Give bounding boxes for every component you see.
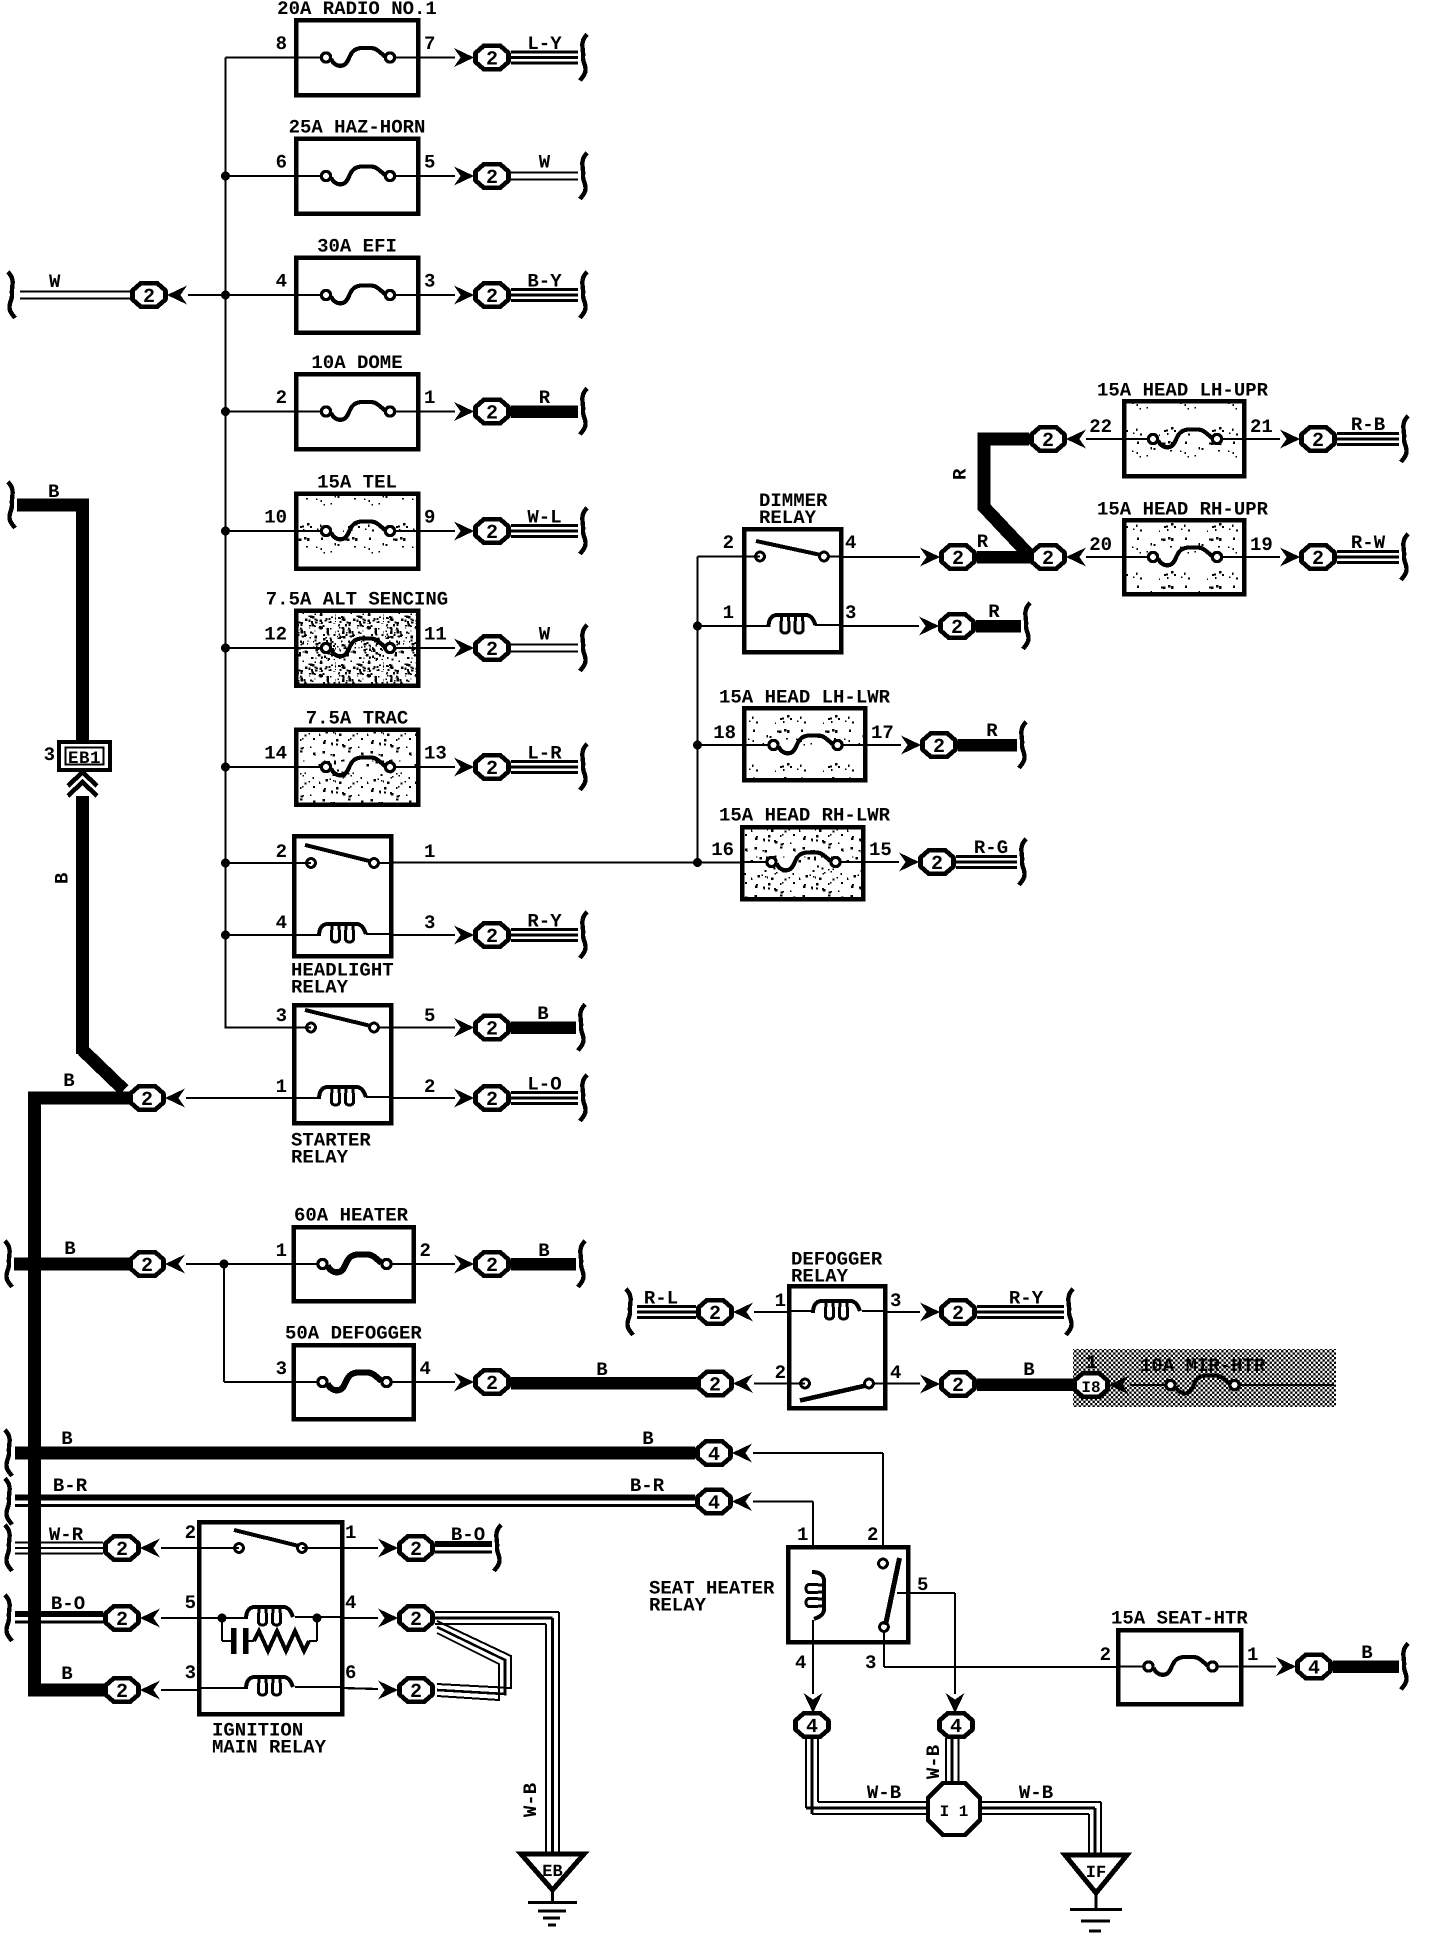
svg-text:3: 3 bbox=[44, 744, 55, 766]
pin 1 of ignition relay bbox=[345, 1522, 356, 1544]
wire R bbox=[511, 387, 587, 435]
wire B (left vertical bus) bbox=[28, 1092, 41, 1697]
connector 2 (B ignition) bbox=[106, 1678, 161, 1704]
switch contacts headlight relay bbox=[305, 845, 391, 867]
svg-text:MAIN RELAY: MAIN RELAY bbox=[212, 1737, 327, 1759]
svg-text:4: 4 bbox=[795, 1652, 806, 1674]
connector 2 (B into 60A) bbox=[131, 1252, 186, 1278]
svg-text:R-W: R-W bbox=[1351, 532, 1386, 554]
wire B (vertical, below EB1) bbox=[52, 796, 125, 1090]
wire B (seat continuation) bbox=[1333, 1642, 1408, 1690]
svg-text:R-L: R-L bbox=[644, 1288, 678, 1310]
junction bus/7.5A TRAC bbox=[221, 763, 230, 772]
fuse 7.5A ALT SENCING bbox=[266, 589, 448, 686]
wire ignition pin 4 to connector bbox=[342, 1617, 378, 1619]
wire B-R (long feed) bbox=[5, 1475, 695, 1525]
pin 1 of defogger relay bbox=[775, 1290, 786, 1312]
pin 2 of 10A DOME bbox=[276, 387, 287, 409]
pin 16 of RH-LWR bbox=[711, 839, 734, 861]
svg-text:4: 4 bbox=[950, 1716, 962, 1739]
wire starter relay pin 5 to connector bbox=[391, 1026, 455, 1028]
svg-text:15A HEAD LH-UPR: 15A HEAD LH-UPR bbox=[1097, 380, 1269, 402]
wire B long to seat heater relay pin 2 bbox=[753, 1453, 883, 1559]
svg-text:B: B bbox=[1361, 1642, 1372, 1664]
svg-text:2: 2 bbox=[931, 853, 943, 876]
wire B-Y bbox=[511, 271, 587, 319]
wire connector to RH-UPR pin 20 bbox=[1086, 556, 1124, 558]
svg-text:RELAY: RELAY bbox=[649, 1595, 707, 1617]
wire R (LH-LWR continuation) bbox=[958, 720, 1026, 768]
connector 2 (R dimmer coil) bbox=[919, 614, 974, 640]
junction bus/10A DOME bbox=[221, 407, 230, 416]
svg-text:B: B bbox=[1023, 1359, 1034, 1381]
coil starter relay bbox=[294, 1087, 391, 1105]
switch contacts defogger relay bbox=[800, 1379, 885, 1400]
wire R-B bbox=[1337, 414, 1408, 462]
wire bus to headlight relay pin 4 bbox=[221, 931, 294, 940]
connector I8 bbox=[1075, 1373, 1130, 1397]
connector 2 (L-Y) bbox=[454, 46, 509, 72]
pin 2 of 15A SEAT-HTR bbox=[1100, 1644, 1111, 1666]
pin 4 of headlight relay bbox=[276, 912, 287, 934]
wire R-W bbox=[1337, 532, 1408, 580]
pin 11 of 7.5A ALT SENCING bbox=[424, 624, 447, 646]
svg-text:2: 2 bbox=[486, 1255, 498, 1278]
svg-text:9: 9 bbox=[424, 507, 435, 529]
svg-text:1: 1 bbox=[276, 1076, 287, 1098]
svg-text:B: B bbox=[596, 1359, 607, 1381]
svg-text:3: 3 bbox=[424, 912, 435, 934]
svg-text:3: 3 bbox=[845, 602, 856, 624]
svg-text:18: 18 bbox=[713, 722, 736, 744]
wire head bus vertical bbox=[696, 557, 698, 863]
svg-text:2: 2 bbox=[486, 639, 498, 662]
pin 4 of seat heater relay bbox=[795, 1652, 806, 1674]
svg-text:2: 2 bbox=[141, 1255, 153, 1278]
pin 4 of dimmer relay bbox=[845, 532, 856, 554]
junction head bus / headlight pin1 wire bbox=[693, 858, 702, 867]
wire B-O bbox=[5, 1593, 103, 1641]
connector 2 (dimmer out R) bbox=[920, 545, 975, 571]
svg-text:B-R: B-R bbox=[630, 1475, 665, 1497]
coil ignition relay (main) bbox=[199, 1607, 342, 1625]
pin 21 of LH-UPR bbox=[1250, 416, 1273, 438]
wire head bus to LH-LWR pin 18 bbox=[693, 741, 744, 750]
svg-text:7.5A TRAC: 7.5A TRAC bbox=[306, 708, 409, 730]
wire defogger pin 2 to connector bbox=[754, 1382, 805, 1384]
wire headlight relay pin 1 to head fuse bus bbox=[391, 861, 742, 863]
connector 2 (L-R) bbox=[454, 755, 509, 781]
svg-text:B: B bbox=[52, 873, 74, 884]
wire B (long feed) bbox=[5, 1428, 695, 1476]
fuse 50A DEFOGGER bbox=[285, 1323, 422, 1420]
pin 1 of 10A MIR-HTR bbox=[1086, 1352, 1097, 1374]
pin 5 of seat heater relay bbox=[917, 1574, 928, 1596]
svg-text:R: R bbox=[986, 720, 998, 742]
pin 2 of 60A HEATER bbox=[420, 1240, 431, 1262]
wire bus to fuse 20A RADIO NO.1 bbox=[226, 56, 297, 58]
svg-text:2: 2 bbox=[410, 1539, 422, 1562]
svg-text:L-Y: L-Y bbox=[527, 33, 562, 55]
wire W-B bundle I1 to ground IF bbox=[980, 1782, 1101, 1855]
connector 4 (B long) bbox=[698, 1441, 753, 1467]
svg-text:2: 2 bbox=[276, 387, 287, 409]
svg-text:2: 2 bbox=[276, 841, 287, 863]
wire L-Y bbox=[511, 33, 587, 81]
svg-text:2: 2 bbox=[486, 1089, 498, 1112]
wire L-O bbox=[511, 1074, 587, 1122]
wire defogger pin 4 to connector bbox=[885, 1382, 920, 1384]
wire bus to fuse 10A DOME bbox=[226, 410, 297, 412]
pin 4 of 30A EFI bbox=[276, 271, 287, 293]
wire RH-UPR pin 19 to connector bbox=[1244, 556, 1280, 558]
wire B (heater continuation) bbox=[511, 1240, 585, 1287]
pin 14 of 7.5A TRAC bbox=[264, 743, 287, 765]
svg-text:2: 2 bbox=[116, 1609, 128, 1632]
svg-text:4: 4 bbox=[345, 1592, 356, 1614]
svg-text:2: 2 bbox=[185, 1522, 196, 1544]
relay box DIMMER RELAY bbox=[744, 490, 841, 652]
pin 3 of 30A EFI bbox=[424, 271, 435, 293]
svg-text:R: R bbox=[950, 468, 972, 480]
stipple band 10A MIR-HTR bbox=[1073, 1349, 1336, 1407]
junction bus/7.5A ALT SENCING bbox=[221, 644, 230, 653]
wire 50A DEFOGGER pin 4 to connector bbox=[414, 1381, 456, 1383]
wire connector to LH-UPR pin 22 bbox=[1086, 438, 1124, 440]
svg-text:3: 3 bbox=[276, 1005, 287, 1027]
svg-text:11: 11 bbox=[424, 624, 447, 646]
svg-text:3: 3 bbox=[276, 1358, 287, 1380]
svg-text:4: 4 bbox=[1308, 1658, 1320, 1681]
svg-text:15A HEAD LH-LWR: 15A HEAD LH-LWR bbox=[719, 687, 891, 709]
wire defogger pin 3 to connector bbox=[885, 1311, 920, 1313]
switch contacts dimmer relay bbox=[756, 541, 841, 561]
wire fuse 15A TEL to connector bbox=[418, 530, 455, 532]
svg-text:W-L: W-L bbox=[527, 507, 561, 529]
fuse 15A TEL bbox=[296, 472, 418, 569]
fuse 30A EFI bbox=[296, 236, 418, 333]
svg-text:W: W bbox=[539, 152, 551, 174]
svg-text:R: R bbox=[539, 387, 551, 409]
svg-text:2: 2 bbox=[952, 1375, 964, 1398]
connector 2 (B-O left) bbox=[106, 1606, 161, 1632]
wire W-R to ignition pin 2 bbox=[161, 1547, 239, 1549]
svg-text:4: 4 bbox=[276, 912, 287, 934]
pin 3 of headlight relay bbox=[424, 912, 435, 934]
wire bus to fuse 25A HAZ-HORN bbox=[226, 175, 297, 177]
pin 8 of 20A RADIO NO.1 bbox=[276, 33, 287, 55]
svg-text:2: 2 bbox=[116, 1539, 128, 1562]
connector 2 (W-B pin4) bbox=[378, 1606, 433, 1632]
svg-text:2: 2 bbox=[933, 736, 945, 759]
svg-text:R: R bbox=[977, 531, 989, 553]
svg-text:2: 2 bbox=[723, 532, 734, 554]
wire connector to 60A HEATER pin 1 bbox=[186, 1260, 294, 1269]
wire fuse 10A DOME to connector bbox=[418, 410, 455, 412]
wire B battery feed (top left) bbox=[8, 481, 89, 748]
wire R-Y bbox=[511, 911, 587, 959]
fuse 15A HEAD RH-LWR bbox=[719, 805, 891, 900]
wire B-R to seat heater relay pin 1 bbox=[753, 1502, 813, 1573]
pin 5 of 25A HAZ-HORN bbox=[424, 152, 435, 174]
svg-text:20: 20 bbox=[1089, 534, 1112, 556]
svg-text:B-O: B-O bbox=[51, 1593, 85, 1615]
svg-text:22: 22 bbox=[1089, 416, 1112, 438]
pin 2 of headlight relay bbox=[276, 841, 287, 863]
junction bus/15A TEL bbox=[221, 527, 230, 536]
pin 20 of RH-UPR bbox=[1089, 534, 1112, 556]
svg-text:L-O: L-O bbox=[527, 1074, 561, 1096]
fuse 10A DOME bbox=[296, 352, 418, 449]
fuse 25A HAZ-HORN bbox=[289, 117, 426, 214]
svg-text:W: W bbox=[49, 271, 61, 293]
svg-text:B-R: B-R bbox=[53, 1475, 88, 1497]
svg-text:6: 6 bbox=[345, 1662, 356, 1684]
svg-text:B: B bbox=[64, 1238, 75, 1260]
svg-text:I8: I8 bbox=[1081, 1379, 1100, 1397]
wire 60A HEATER pin 2 to connector bbox=[414, 1263, 456, 1265]
arrow down to connector 4 (pin 5) bbox=[940, 1693, 973, 1739]
pin 6 of 25A HAZ-HORN bbox=[276, 152, 287, 174]
wire W-B bundle seat pin4 to joint I1 bbox=[806, 1738, 928, 1814]
svg-text:B: B bbox=[538, 1240, 549, 1262]
pin 1 of 60A HEATER bbox=[276, 1240, 287, 1262]
pin 2 of starter relay bbox=[424, 1076, 435, 1098]
arrow down to connector 4 (pin 4) bbox=[796, 1693, 829, 1739]
connector 4 (B-R long) bbox=[698, 1490, 753, 1516]
svg-text:3: 3 bbox=[890, 1290, 901, 1312]
connector 2 (R lwr) bbox=[901, 733, 956, 759]
wire ignition pin 1 to connector bbox=[342, 1547, 378, 1549]
svg-text:R: R bbox=[988, 601, 1000, 623]
pin 6 of ignition relay bbox=[345, 1662, 356, 1684]
wire R-L bbox=[626, 1288, 696, 1336]
coil ignition relay (secondary) bbox=[199, 1677, 342, 1695]
connector 2 (B-O right) bbox=[378, 1536, 433, 1562]
pin 1 of dimmer relay bbox=[723, 602, 734, 624]
svg-text:15: 15 bbox=[869, 839, 892, 861]
svg-text:5: 5 bbox=[424, 152, 435, 174]
svg-text:2: 2 bbox=[424, 1076, 435, 1098]
switch contacts ignition main relay bbox=[234, 1530, 306, 1552]
svg-text:16: 16 bbox=[711, 839, 734, 861]
pin 3 of seat heater relay bbox=[865, 1652, 876, 1674]
pin 2 of seat heater relay bbox=[867, 1524, 878, 1546]
pin 9 of 15A TEL bbox=[424, 507, 435, 529]
svg-text:IF: IF bbox=[1086, 1864, 1106, 1883]
svg-text:2: 2 bbox=[709, 1303, 721, 1326]
svg-text:30A EFI: 30A EFI bbox=[317, 236, 397, 258]
wire seat relay pin 4 down bbox=[812, 1620, 814, 1694]
wire dimmer pin 4 to connector bbox=[841, 556, 920, 558]
svg-text:6: 6 bbox=[276, 152, 287, 174]
svg-text:W: W bbox=[539, 624, 551, 646]
wire R-G bbox=[956, 837, 1026, 885]
pin 2 of dimmer relay bbox=[723, 532, 734, 554]
pin 22 of LH-UPR bbox=[1089, 416, 1112, 438]
fuse 15A HEAD LH-UPR bbox=[1097, 380, 1269, 477]
svg-text:1: 1 bbox=[276, 1240, 287, 1262]
connector 2 (B-Y) bbox=[454, 283, 509, 309]
svg-text:2: 2 bbox=[486, 522, 498, 545]
wire R (dimmer coil continuation) bbox=[976, 601, 1030, 649]
svg-text:1: 1 bbox=[1086, 1352, 1097, 1374]
arrow chevrons below EB1 bbox=[68, 772, 97, 796]
pin 18 of LH-LWR bbox=[713, 722, 736, 744]
ground IF bbox=[1065, 1855, 1127, 1931]
svg-text:RELAY: RELAY bbox=[759, 507, 817, 529]
wire B-O right bbox=[435, 1524, 501, 1571]
svg-text:W-R: W-R bbox=[49, 1524, 84, 1546]
pin 17 of LH-LWR bbox=[871, 722, 894, 744]
coil headlight relay bbox=[294, 924, 391, 942]
pin 1 of headlight relay bbox=[424, 841, 435, 863]
connector 2 (B mirror heater) bbox=[920, 1372, 975, 1398]
fuse 15A HEAD LH-LWR bbox=[719, 687, 891, 781]
svg-text:7.5A ALT SENCING: 7.5A ALT SENCING bbox=[266, 589, 448, 611]
wire SEAT-HTR pin 1 to connector bbox=[1241, 1665, 1276, 1667]
wire bus to fuse 30A EFI bbox=[226, 294, 297, 296]
connector 2 (B main into starter coil) bbox=[131, 1086, 186, 1112]
svg-text:2: 2 bbox=[486, 1373, 498, 1396]
svg-text:15A TEL: 15A TEL bbox=[317, 472, 397, 494]
svg-text:2: 2 bbox=[486, 286, 498, 309]
svg-text:1: 1 bbox=[723, 602, 734, 624]
connector 4 (B seat) bbox=[1276, 1655, 1331, 1681]
svg-text:15A HEAD RH-LWR: 15A HEAD RH-LWR bbox=[719, 805, 891, 827]
wire bus to fuse 7.5A TRAC bbox=[226, 766, 297, 768]
wire fuse 20A RADIO NO.1 to connector bbox=[418, 56, 455, 58]
wire B to defogger relay bbox=[511, 1359, 697, 1389]
coil seat heater relay bbox=[806, 1572, 824, 1619]
pin 15 of RH-LWR bbox=[869, 839, 892, 861]
connector 2 (R-G) bbox=[899, 850, 954, 876]
svg-text:2: 2 bbox=[1312, 430, 1324, 453]
svg-text:1: 1 bbox=[797, 1524, 808, 1546]
wire bus to fuse 7.5A ALT SENCING bbox=[226, 647, 297, 649]
wire fuse 7.5A TRAC to connector bbox=[418, 766, 455, 768]
svg-text:2: 2 bbox=[1312, 548, 1324, 571]
relay box IGNITION MAIN RELAY bbox=[199, 1522, 342, 1759]
wire W-B bundle pin6 joining bbox=[437, 1621, 511, 1700]
svg-text:1: 1 bbox=[775, 1290, 786, 1312]
wire B to mirror heater connector bbox=[977, 1359, 1073, 1391]
wire bus to headlight relay pin 2 bbox=[221, 859, 311, 868]
connector 2 (W left) bbox=[133, 283, 188, 309]
pin 4 of defogger relay bbox=[890, 1362, 901, 1384]
svg-text:W-B: W-B bbox=[923, 1745, 945, 1779]
svg-text:2: 2 bbox=[867, 1524, 878, 1546]
wire W bbox=[511, 152, 587, 200]
svg-text:10: 10 bbox=[264, 507, 287, 529]
coil dimmer relay bbox=[744, 615, 841, 633]
svg-text:3: 3 bbox=[865, 1652, 876, 1674]
svg-text:2: 2 bbox=[410, 1609, 422, 1632]
svg-text:R-Y: R-Y bbox=[527, 911, 562, 933]
relay box HEADLIGHT RELAY bbox=[291, 836, 394, 999]
svg-text:2: 2 bbox=[951, 617, 963, 640]
connector 2 (B starter) bbox=[454, 1016, 509, 1042]
svg-text:2: 2 bbox=[486, 167, 498, 190]
svg-text:2: 2 bbox=[410, 1681, 422, 1704]
wire defogger pin 1 to connector bbox=[754, 1311, 789, 1313]
wire B (starter continuation) bbox=[511, 1003, 585, 1051]
svg-text:4: 4 bbox=[845, 532, 856, 554]
svg-text:R-B: R-B bbox=[1351, 414, 1385, 436]
connector 2 (R-L) bbox=[699, 1300, 754, 1326]
svg-text:2: 2 bbox=[420, 1240, 431, 1262]
wire seat relay pin 3 to fuse 15A SEAT-HTR bbox=[884, 1632, 1118, 1667]
fuse 60A HEATER bbox=[294, 1205, 414, 1302]
joint connector I 1 (octagon) bbox=[928, 1783, 980, 1835]
wire R-Y defogger bbox=[977, 1288, 1073, 1336]
wire B feed to 60A HEATER bbox=[5, 1238, 129, 1287]
fuse 7.5A TRAC bbox=[296, 708, 418, 805]
svg-text:I 1: I 1 bbox=[940, 1803, 969, 1821]
svg-text:4: 4 bbox=[276, 271, 287, 293]
svg-text:R-Y: R-Y bbox=[1009, 1288, 1044, 1310]
svg-text:W-B: W-B bbox=[867, 1782, 901, 1804]
svg-text:14: 14 bbox=[264, 743, 287, 765]
relay box DEFOGGER RELAY bbox=[789, 1249, 885, 1409]
svg-text:1: 1 bbox=[345, 1522, 356, 1544]
svg-text:3: 3 bbox=[185, 1662, 196, 1684]
pin 1 of seat heater relay bbox=[797, 1524, 808, 1546]
pin 12 of 7.5A ALT SENCING bbox=[264, 624, 287, 646]
junction bus/30A EFI bbox=[221, 291, 230, 300]
svg-text:5: 5 bbox=[185, 1592, 196, 1614]
wire connector to ignition pin 3 bbox=[161, 1689, 199, 1691]
pin 1 of starter relay bbox=[276, 1076, 287, 1098]
svg-text:15A SEAT-HTR: 15A SEAT-HTR bbox=[1111, 1608, 1248, 1630]
svg-text:50A DEFOGGER: 50A DEFOGGER bbox=[285, 1323, 422, 1345]
wire W-B bundle pin4 to ground EB bbox=[435, 1612, 559, 1854]
capacitor + resistor branch ignition relay bbox=[222, 1618, 317, 1654]
ground EB bbox=[521, 1854, 584, 1925]
wire to dimmer pin 1 bbox=[693, 622, 744, 631]
svg-text:4: 4 bbox=[420, 1358, 431, 1380]
connector 2 (B into defogger relay) bbox=[699, 1372, 754, 1398]
connector 2 (R-W) bbox=[1280, 545, 1335, 571]
svg-text:B: B bbox=[63, 1070, 74, 1092]
relay box STARTER RELAY bbox=[291, 1005, 391, 1169]
pin 19 of RH-UPR bbox=[1250, 534, 1273, 556]
wire fuse 30A EFI to connector bbox=[418, 294, 455, 296]
svg-text:1: 1 bbox=[424, 841, 435, 863]
wire W-B bundle seat pin5 to joint I1 bbox=[923, 1738, 959, 1786]
connector EB1 bbox=[44, 742, 110, 770]
svg-text:W-B: W-B bbox=[520, 1783, 542, 1817]
svg-text:W-B: W-B bbox=[1019, 1782, 1053, 1804]
wire fuse 7.5A ALT SENCING to connector bbox=[418, 647, 455, 649]
wire LH-UPR pin 21 to connector bbox=[1244, 438, 1280, 440]
pin 3 of starter relay bbox=[276, 1005, 287, 1027]
pin 4 of ignition relay bbox=[345, 1592, 356, 1614]
svg-text:4: 4 bbox=[708, 1493, 720, 1516]
svg-text:2: 2 bbox=[709, 1375, 721, 1398]
wire B into ignition pin 3 bbox=[28, 1663, 104, 1697]
connector 2 (R-B) bbox=[1280, 427, 1335, 453]
svg-text:L-R: L-R bbox=[527, 743, 562, 765]
svg-text:60A HEATER: 60A HEATER bbox=[294, 1205, 409, 1227]
wire starter relay pin 2 to connector bbox=[391, 1097, 455, 1099]
relay box SEAT HEATER RELAY bbox=[649, 1547, 908, 1642]
svg-text:4: 4 bbox=[708, 1444, 720, 1467]
svg-text:2: 2 bbox=[141, 1089, 153, 1112]
wire seat relay pin 5 bbox=[897, 1593, 955, 1694]
svg-text:12: 12 bbox=[264, 624, 287, 646]
svg-text:RELAY: RELAY bbox=[291, 1147, 349, 1169]
